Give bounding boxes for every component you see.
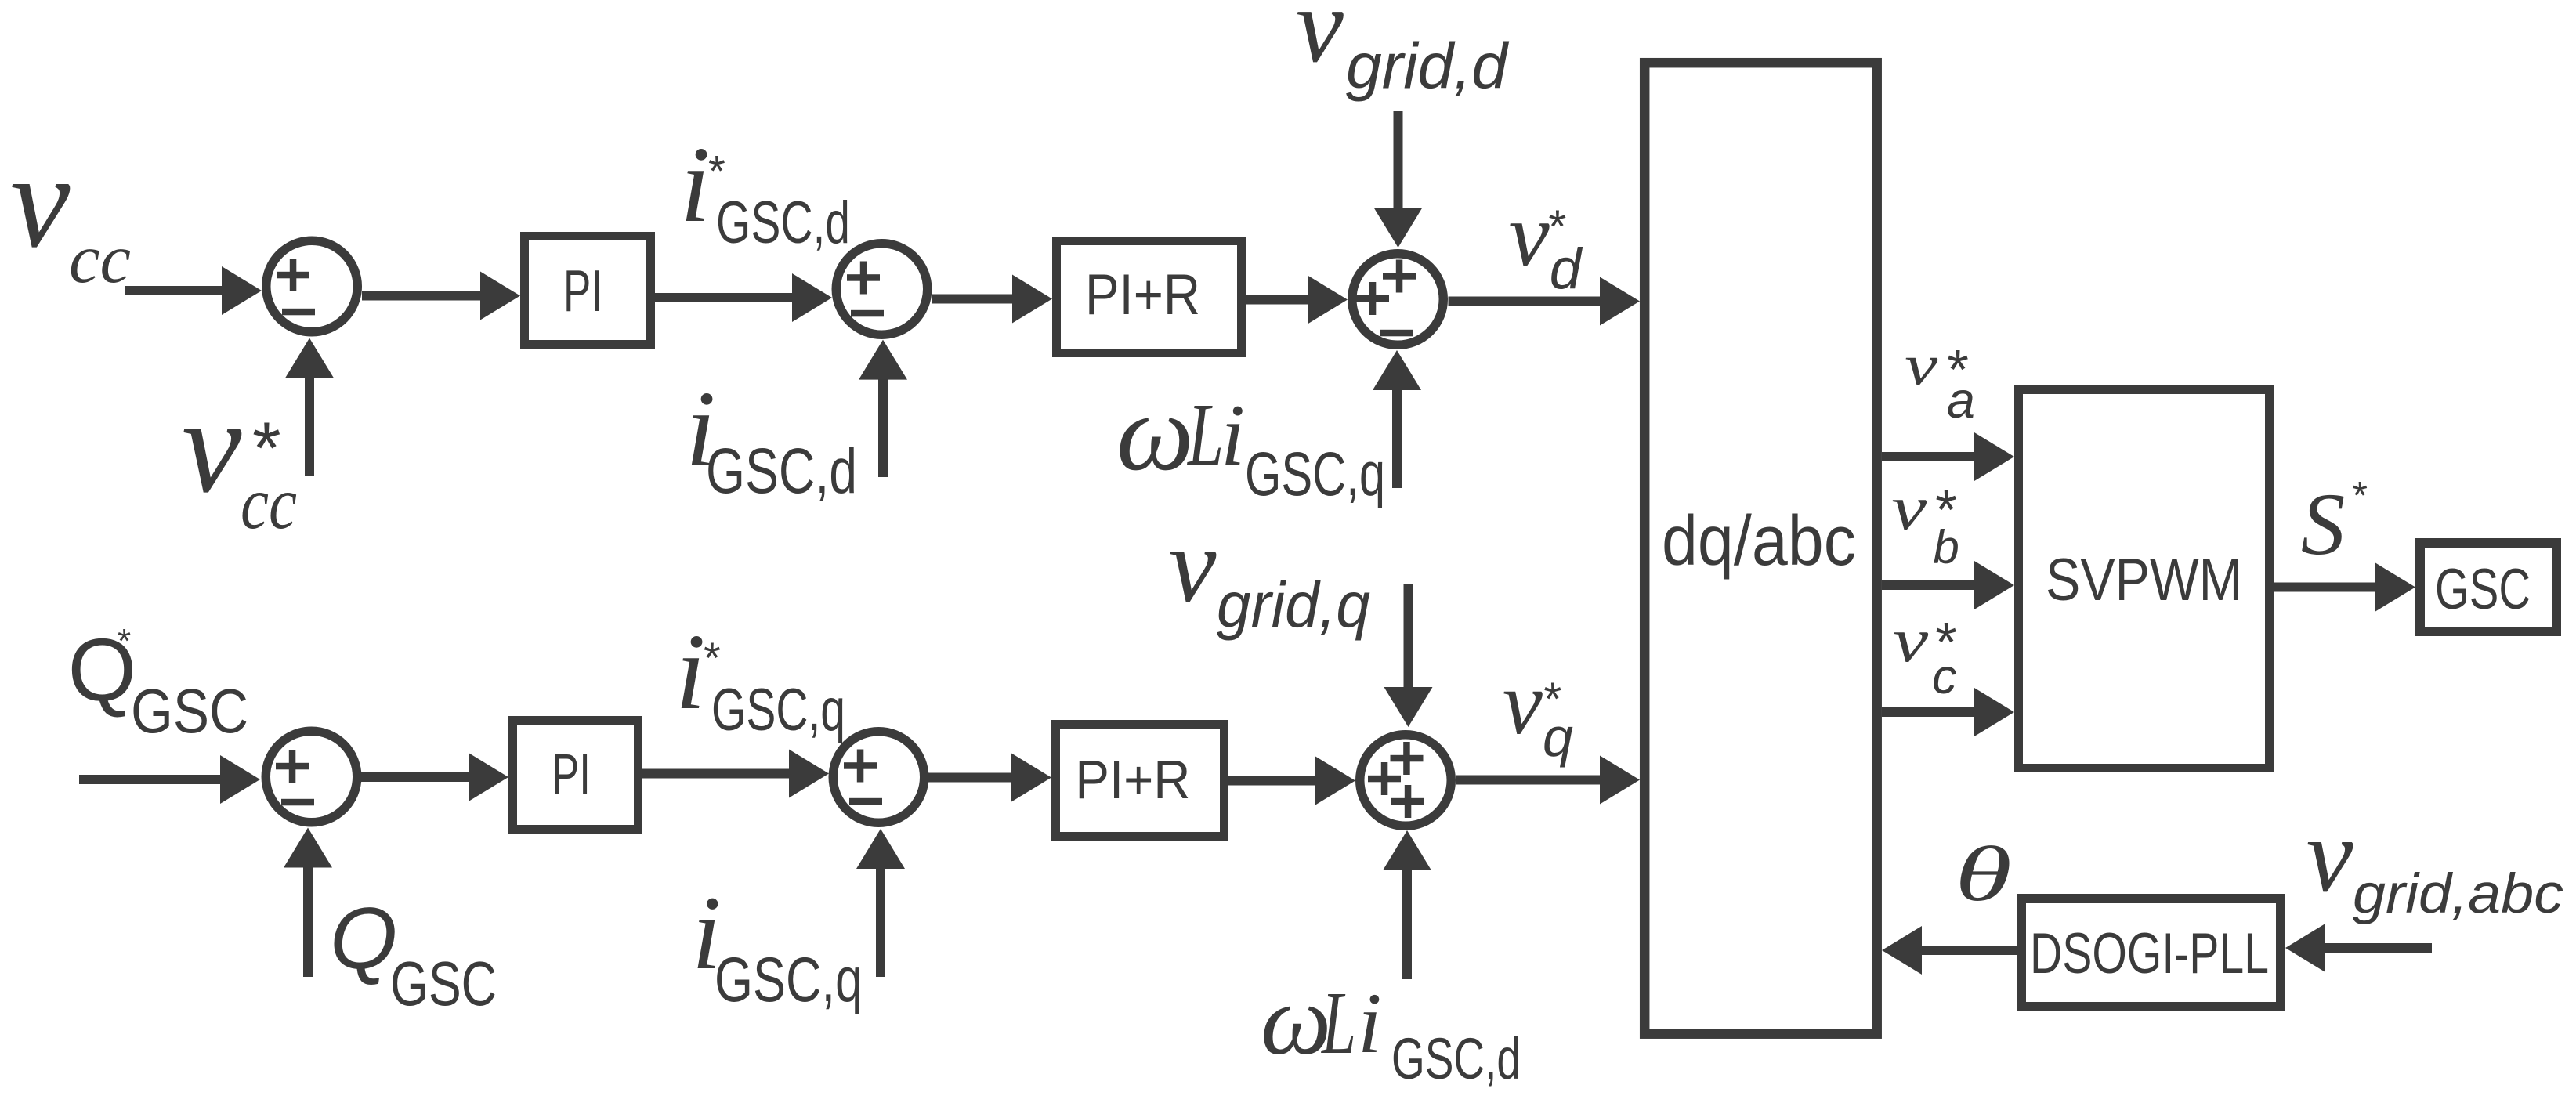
svg-text:GSC: GSC — [390, 949, 497, 1018]
svg-text:SVPWM: SVPWM — [2046, 547, 2242, 613]
svg-text:b: b — [1933, 521, 1959, 573]
svg-text:PI+R: PI+R — [1075, 749, 1190, 810]
svg-text:*: * — [704, 633, 721, 682]
svg-text:d: d — [1550, 237, 1583, 301]
svg-text:cc: cc — [241, 461, 297, 544]
arrow i_GSC,d into S2 — [859, 340, 907, 477]
svg-text:*: * — [708, 146, 725, 196]
label v*d — [1509, 185, 1583, 301]
label theta — [1955, 830, 2012, 917]
label v*cc — [182, 372, 297, 544]
svg-text:PI: PI — [563, 258, 602, 324]
svg-text:i: i — [1221, 387, 1245, 484]
label i_GSC,d — [686, 369, 857, 507]
svg-text:Q: Q — [330, 890, 397, 987]
svg-text:GSC: GSC — [131, 676, 248, 746]
label v*q — [1503, 653, 1573, 768]
block PI (d-axis voltage regulator) — [525, 237, 651, 345]
svg-text:GSC: GSC — [2435, 558, 2531, 621]
svg-text:v: v — [1893, 606, 1929, 675]
svg-text:GSC,d: GSC,d — [1391, 1026, 1521, 1091]
svg-text:v: v — [1509, 185, 1550, 286]
wire S5 to PI+R block 2 — [928, 754, 1051, 802]
wire Q*GSC to summing junction S4 — [79, 755, 260, 804]
summing junction S1 — [266, 240, 358, 332]
wire v_cc to summing junction S1 — [125, 266, 262, 315]
label Q_GSC — [330, 890, 497, 1018]
wire S1 to PI block — [362, 272, 520, 320]
wire PI+R to summing junction S3 — [1246, 276, 1348, 324]
wire PI 2 to summing junction S5 — [642, 750, 829, 798]
arrow wLi_GSC,q into S3 — [1373, 350, 1421, 488]
svg-text:v: v — [182, 372, 242, 521]
wire v*b dq/abc to SVPWM — [1882, 561, 2014, 609]
label Q*GSC input — [68, 620, 249, 746]
svg-text:v: v — [2306, 797, 2353, 914]
svg-text:q: q — [1543, 707, 1573, 768]
block dq/abc transformation — [1644, 63, 1877, 1034]
block PI (reactive power regulator) — [513, 721, 639, 830]
arrow Q_GSC into S4 — [284, 828, 332, 978]
label v_cc input — [10, 127, 131, 298]
svg-text:v: v — [1905, 334, 1937, 398]
svg-text:GSC,q: GSC,q — [711, 677, 845, 743]
svg-text:PI: PI — [552, 742, 591, 807]
label i*GSC,q — [675, 612, 845, 743]
label wLi_GSC,q — [1116, 372, 1385, 508]
block PI+R (d-axis current regulator) — [1057, 241, 1242, 353]
svg-text:DSOGI-PLL: DSOGI-PLL — [2030, 922, 2269, 985]
block PI+R (q-axis current regulator) — [1056, 725, 1225, 837]
svg-text:i: i — [675, 612, 706, 732]
wire PI to summing junction S2 — [655, 273, 832, 322]
label v*b — [1891, 474, 1959, 573]
svg-text:grid,q: grid,q — [1217, 568, 1370, 641]
label S* — [2301, 474, 2368, 574]
summing junction S6 — [1360, 735, 1452, 826]
label v*a — [1905, 334, 1975, 429]
arrow i_GSC,q into S5 — [856, 829, 905, 977]
svg-text:GSC,q: GSC,q — [715, 945, 863, 1015]
svg-text:S: S — [2301, 476, 2346, 573]
svg-text:v: v — [1503, 653, 1543, 753]
svg-text:*: * — [118, 622, 131, 660]
svg-text:v: v — [1891, 474, 1927, 543]
wire S2 to PI+R block — [932, 275, 1052, 324]
svg-text:v: v — [1169, 505, 1217, 624]
arrow v*cc into S1 — [285, 338, 334, 477]
svg-text:GSC,d: GSC,d — [706, 436, 857, 507]
svg-text:cc: cc — [69, 221, 131, 298]
label v*c — [1893, 606, 1957, 704]
label v_grid,d — [1296, 0, 1510, 102]
summing junction S2 — [836, 244, 928, 335]
svg-text:v: v — [10, 127, 71, 276]
summing junction S4 — [266, 731, 357, 823]
svg-text:grid,d: grid,d — [1346, 29, 1510, 102]
label v_grid,q — [1169, 505, 1370, 641]
wire v*c dq/abc to SVPWM — [1882, 688, 2014, 736]
svg-text:*: * — [2353, 474, 2368, 518]
label i*GSC,d — [680, 125, 850, 256]
svg-text:L: L — [1187, 385, 1224, 484]
label i_GSC,q — [692, 875, 863, 1015]
svg-text:ω: ω — [1116, 372, 1194, 494]
arrow wLi_GSC,d into S6 — [1383, 830, 1431, 979]
block DSOGI-PLL — [2021, 899, 2281, 1007]
arrow v_grid,q into S6 — [1384, 584, 1433, 727]
wire v_grid,abc into DSOGI-PLL — [2285, 924, 2432, 972]
wire theta DSOGI-PLL to dq/abc — [1882, 926, 2017, 975]
svg-text:a: a — [1947, 371, 1975, 429]
svg-text:ω: ω — [1261, 964, 1331, 1076]
summing junction S3 — [1352, 254, 1444, 345]
svg-text:dq/abc: dq/abc — [1662, 502, 1856, 580]
svg-text:L: L — [1321, 973, 1356, 1072]
svg-text:i: i — [1358, 975, 1382, 1071]
wire S4 to PI block 2 — [361, 753, 508, 801]
svg-text:GSC,d: GSC,d — [716, 190, 850, 256]
svg-text:c: c — [1932, 649, 1957, 704]
wire S6 to dq/abc block — [1456, 756, 1640, 805]
svg-text:v: v — [1296, 0, 1344, 85]
svg-text:PI+R: PI+R — [1085, 263, 1200, 327]
wire S3 to dq/abc block — [1449, 277, 1641, 326]
arrow v_grid,d into S3 — [1374, 111, 1423, 248]
svg-text:grid,abc: grid,abc — [2353, 863, 2563, 925]
block GSC converter — [2420, 543, 2556, 631]
svg-text:i: i — [680, 125, 711, 245]
label v_grid,abc — [2306, 797, 2563, 925]
block SVPWM modulator — [2019, 390, 2270, 768]
label wLi_GSC,d — [1261, 964, 1521, 1091]
summing junction S5 — [833, 732, 924, 823]
wire SVPWM to GSC — [2274, 563, 2415, 612]
svg-text:GSC,q: GSC,q — [1245, 439, 1385, 508]
wire v*a dq/abc to SVPWM — [1882, 432, 2014, 481]
svg-text:θ: θ — [1955, 830, 2012, 917]
wire PI+R 2 to summing junction S6 — [1228, 757, 1355, 805]
